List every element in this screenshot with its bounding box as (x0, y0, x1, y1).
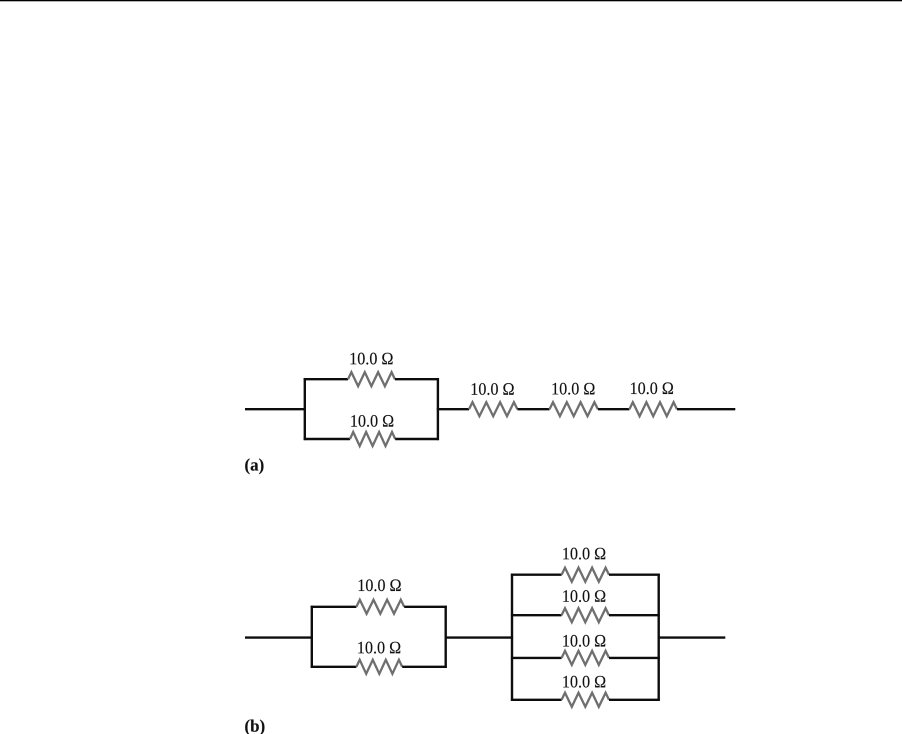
value label 10.0 ohm for R6 (359, 579, 401, 591)
wire: parallel box1 left vertical (b) (311, 606, 313, 668)
wire: lead between box1 and box2 (b) (445, 636, 513, 638)
wire: box2 branch4 right stub (b) (609, 699, 660, 701)
wire: lead between R4 and R5 (a) (598, 408, 630, 410)
resistor R2 10.0 ohm, (a) bottom branch (350, 432, 395, 446)
wire: box2 branch2 left stub (b) (511, 614, 562, 616)
value label 10.0 ohm for R5 (631, 382, 673, 394)
wire: lead between R3 and R4 (a) (517, 408, 549, 410)
value label 10.0 ohm for R8 (563, 548, 605, 560)
value label 10.0 ohm for R4 (552, 383, 594, 395)
wire: input lead (b) (245, 636, 313, 638)
label (b) (245, 720, 264, 734)
label (a) (245, 458, 263, 474)
wire: top branch right stub (a) (395, 378, 439, 380)
resistor R5 10.0 ohm, (a) series 3 (629, 402, 677, 416)
wire: box2 branch3 right stub (b) (609, 657, 660, 659)
wire: input lead (a) (245, 408, 306, 410)
wire: box1 top branch right stub (b) (404, 606, 447, 608)
wire: output lead (b) (658, 636, 726, 638)
value label 10.0 ohm for R9 (563, 590, 605, 602)
wire: box2 branch4 left stub (b) (511, 699, 562, 701)
resistor R9 10.0 ohm, (b) box2 branch2 (562, 608, 609, 622)
wire: parallel box right vertical (a) (437, 378, 439, 440)
value label 10.0 ohm for R3 (472, 383, 514, 395)
wire: box2 branch3 left stub (b) (511, 657, 562, 659)
value label 10.0 ohm for R2 (351, 415, 393, 427)
wire: output lead (a) (677, 408, 735, 410)
wire: top branch left stub (a) (304, 378, 348, 380)
wire: box2 branch1 right stub (b) (609, 574, 660, 576)
resistor R10 10.0 ohm, (b) box2 branch3 (562, 651, 609, 665)
wire: parallel box2 right vertical (b) (658, 574, 660, 701)
resistor R1 10.0 ohm, (a) top branch (348, 372, 395, 386)
resistor R11 10.0 ohm, (b) box2 branch4 (562, 693, 609, 707)
resistor R6 10.0 ohm, (b) box1 top (356, 600, 404, 614)
resistor R3 10.0 ohm, (a) series 1 (469, 402, 517, 416)
wire: box1 top branch left stub (b) (311, 606, 357, 608)
wire: parallel box2 left vertical (b) (511, 574, 513, 701)
wire: bottom branch right stub (a) (395, 438, 439, 440)
wire: lead between box and R3 (a) (437, 408, 469, 410)
value label 10.0 ohm for R7 (358, 642, 400, 654)
value label 10.0 ohm for R11 (563, 676, 605, 688)
resistor R4 10.0 ohm, (a) series 2 (550, 402, 598, 416)
resistor R7 10.0 ohm, (b) box1 bottom (356, 660, 402, 674)
value label 10.0 ohm for R10 (563, 635, 605, 647)
resistor R8 10.0 ohm, (b) box2 branch1 (562, 568, 609, 582)
wire: box2 branch1 left stub (b) (511, 574, 562, 576)
wire: bottom branch left stub (a) (304, 438, 350, 440)
value label 10.0 ohm for R1 (351, 353, 393, 365)
wire: parallel box left vertical (a) (304, 378, 306, 440)
wire: box1 bottom branch right stub (b) (402, 666, 447, 668)
wire: box2 branch2 right stub (b) (609, 614, 660, 616)
wire: box1 bottom branch left stub (b) (311, 666, 357, 668)
wire: parallel box1 right vertical (b) (445, 606, 447, 668)
